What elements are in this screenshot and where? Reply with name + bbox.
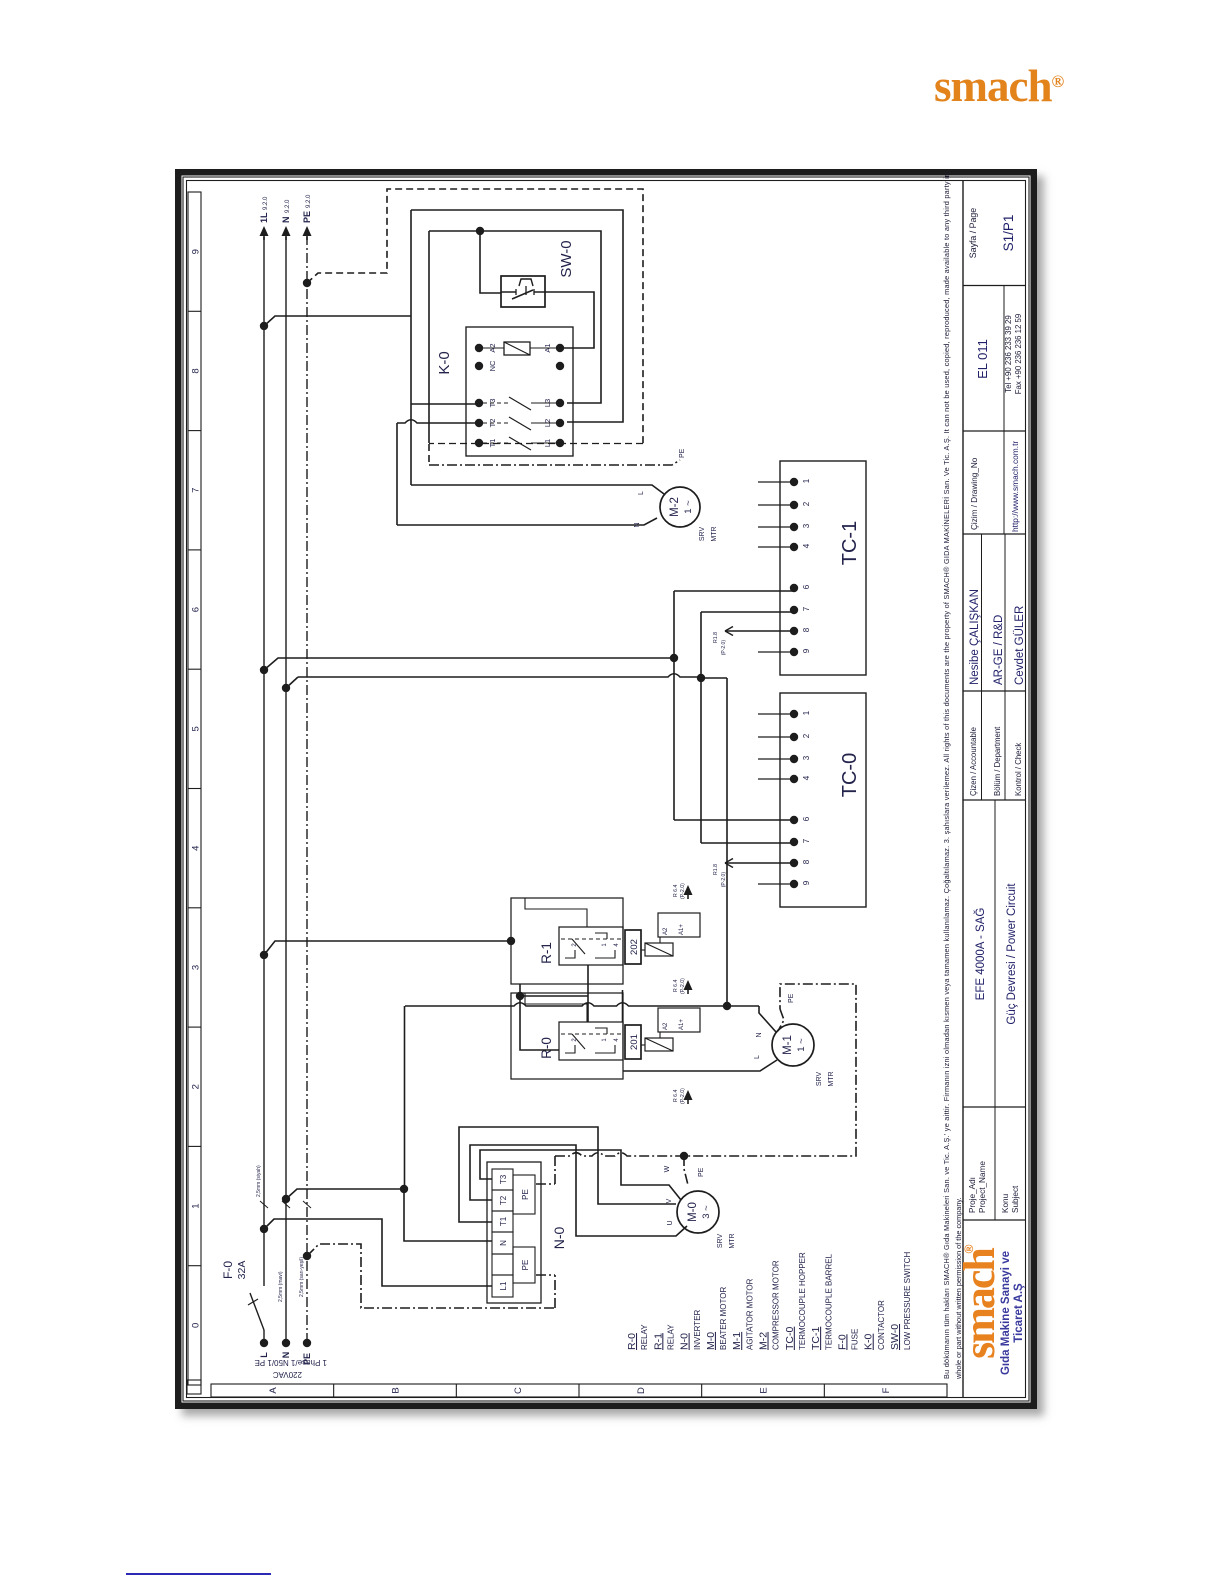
svg-text:4: 4 <box>614 943 620 947</box>
svg-text:T2: T2 <box>499 1195 508 1205</box>
svg-text:M-2: M-2 <box>758 1332 770 1350</box>
svg-text:TERMOCOUPLE HOPPER: TERMOCOUPLE HOPPER <box>798 1252 807 1350</box>
svg-text:N: N <box>499 1240 508 1246</box>
svg-text:FUSE: FUSE <box>851 1329 860 1350</box>
svg-text:F-0: F-0 <box>836 1334 848 1350</box>
svg-text:PE: PE <box>698 1167 705 1177</box>
svg-text:7: 7 <box>802 838 811 843</box>
svg-text:8: 8 <box>191 368 202 373</box>
svg-text:A2: A2 <box>663 1022 669 1030</box>
svg-text:TERMOCOUPLE BARREL: TERMOCOUPLE BARREL <box>824 1253 833 1350</box>
svg-text:5: 5 <box>191 726 202 731</box>
svg-text:TC-0: TC-0 <box>839 753 861 797</box>
svg-text:http://www.smach.com.tr: http://www.smach.com.tr <box>1010 441 1020 532</box>
svg-text:SW-0: SW-0 <box>558 240 575 277</box>
svg-text:1 Phase/1 N50/1 PE: 1 Phase/1 N50/1 PE <box>255 1358 328 1367</box>
svg-text:8: 8 <box>802 627 811 632</box>
svg-text:6: 6 <box>802 584 811 589</box>
svg-text:A: A <box>268 1387 279 1394</box>
svg-text:N: N <box>634 522 641 527</box>
svg-text:BEATER MOTOR: BEATER MOTOR <box>719 1287 728 1350</box>
svg-text:Project_Name: Project_Name <box>978 1161 987 1213</box>
svg-text:L: L <box>259 1352 269 1358</box>
svg-text:D: D <box>636 1387 647 1394</box>
svg-text:R 6.4: R 6.4 <box>673 884 679 897</box>
svg-text:7: 7 <box>802 606 811 611</box>
svg-text:2: 2 <box>191 1084 202 1089</box>
svg-text:(P-2.0): (P-2.0) <box>680 883 686 899</box>
svg-text:4: 4 <box>802 775 811 780</box>
svg-text:Cevdet GÜLER: Cevdet GÜLER <box>1014 606 1026 685</box>
svg-text:SW-0: SW-0 <box>889 1324 901 1350</box>
svg-text:K-0: K-0 <box>863 1334 875 1351</box>
svg-text:R 6.4: R 6.4 <box>673 1089 679 1102</box>
svg-text:S1/P1: S1/P1 <box>1001 215 1016 252</box>
svg-text:MTR: MTR <box>828 1071 835 1086</box>
svg-text:(P-2.0): (P-2.0) <box>680 978 686 994</box>
svg-text:3: 3 <box>191 965 202 970</box>
svg-text:N-0: N-0 <box>551 1227 567 1250</box>
svg-text:COMPRESSOR MOTOR: COMPRESSOR MOTOR <box>772 1260 781 1350</box>
svg-text:9: 9 <box>191 249 202 254</box>
svg-text:N-0: N-0 <box>679 1333 691 1350</box>
svg-text:Kontrol / Check: Kontrol / Check <box>1014 743 1023 796</box>
svg-text:NC: NC <box>488 360 497 371</box>
svg-text:3 ~: 3 ~ <box>701 1205 712 1219</box>
svg-text:Konu: Konu <box>1001 1193 1010 1213</box>
svg-text:R-0: R-0 <box>626 1333 638 1350</box>
svg-text:Çizim / Drawing_No: Çizim / Drawing_No <box>970 457 979 530</box>
svg-text:9: 9 <box>802 648 811 653</box>
svg-text:SRV: SRV <box>699 527 706 542</box>
svg-text:PE: PE <box>521 1189 530 1200</box>
svg-text:F: F <box>881 1387 892 1393</box>
svg-text:Subject: Subject <box>1011 1185 1020 1213</box>
svg-text:INVERTER: INVERTER <box>693 1309 702 1350</box>
svg-text:MTR: MTR <box>711 526 718 541</box>
svg-text:1 ~: 1 ~ <box>796 1038 807 1052</box>
svg-text:T3: T3 <box>499 1174 508 1184</box>
svg-text:Proje_Adı: Proje_Adı <box>968 1177 977 1213</box>
svg-text:2,5mm (mavi): 2,5mm (mavi) <box>278 1271 284 1302</box>
svg-text:(P-2.0): (P-2.0) <box>680 1088 686 1104</box>
svg-text:M-1: M-1 <box>782 1035 794 1055</box>
svg-text:TC-0: TC-0 <box>784 1327 796 1350</box>
svg-text:(P-2.0): (P-2.0) <box>721 640 727 656</box>
svg-text:K-0: K-0 <box>436 351 453 374</box>
svg-text:L: L <box>754 1055 761 1059</box>
svg-text:4: 4 <box>802 543 811 548</box>
svg-text:2,5mm (siyah): 2,5mm (siyah) <box>256 1165 262 1197</box>
svg-text:AGITATOR MOTOR: AGITATOR MOTOR <box>745 1278 754 1350</box>
svg-text:MTR: MTR <box>729 1233 736 1248</box>
svg-text:B: B <box>391 1387 402 1393</box>
svg-text:1: 1 <box>802 710 811 715</box>
svg-text:M-1: M-1 <box>731 1332 743 1350</box>
svg-text:Sayfa / Page: Sayfa / Page <box>968 208 978 258</box>
svg-text:4: 4 <box>191 846 202 851</box>
svg-text:N: N <box>281 217 291 224</box>
svg-text:7: 7 <box>191 488 202 493</box>
svg-text:®: ® <box>962 1244 976 1253</box>
svg-text:M-0: M-0 <box>705 1332 717 1350</box>
svg-text:LOW PRESSURE SWITCH: LOW PRESSURE SWITCH <box>903 1252 912 1350</box>
svg-text:Çizen / Accountable: Çizen / Accountable <box>969 727 978 796</box>
svg-text:F-0: F-0 <box>221 1261 235 1279</box>
svg-text:202: 202 <box>629 939 640 955</box>
svg-text:1: 1 <box>802 478 811 483</box>
svg-text:U: U <box>667 1220 674 1225</box>
svg-text:2,5mm (sarı-yeşil): 2,5mm (sarı-yeşil) <box>299 1257 305 1297</box>
svg-text:R1.8: R1.8 <box>713 864 719 875</box>
svg-text:V: V <box>666 1198 673 1203</box>
svg-text:0: 0 <box>191 1323 202 1328</box>
svg-text:3: 3 <box>802 523 811 528</box>
svg-text:220VAC: 220VAC <box>273 1370 302 1379</box>
svg-text:1: 1 <box>191 1203 202 1208</box>
svg-text:N: N <box>281 1352 291 1359</box>
svg-text:(P-2.0): (P-2.0) <box>721 872 727 888</box>
svg-text:Gıda Makine Sanayi ve: Gıda Makine Sanayi ve <box>1000 1251 1012 1375</box>
svg-text:6: 6 <box>191 607 202 612</box>
svg-text:32A: 32A <box>236 1261 248 1280</box>
svg-text:R1.8: R1.8 <box>713 632 719 643</box>
svg-text:T1: T1 <box>499 1216 508 1226</box>
svg-text:RELAY: RELAY <box>640 1324 649 1350</box>
svg-text:A2: A2 <box>663 927 669 935</box>
svg-text:L: L <box>638 491 645 495</box>
svg-text:EL 011: EL 011 <box>975 339 990 379</box>
svg-text:2: 2 <box>802 733 811 738</box>
svg-text:A1+: A1+ <box>679 1019 685 1030</box>
svg-text:E: E <box>759 1387 770 1393</box>
svg-text:9.2.0: 9.2.0 <box>263 196 269 210</box>
svg-text:Bu dökümanın tüm hakları SMACH: Bu dökümanın tüm hakları SMACH® Gıda Mak… <box>942 173 951 1379</box>
svg-text:R 6.4: R 6.4 <box>673 979 679 992</box>
svg-text:TC-1: TC-1 <box>839 521 861 565</box>
svg-text:1: 1 <box>602 943 608 947</box>
svg-text:M-0: M-0 <box>687 1202 699 1222</box>
svg-text:4: 4 <box>614 1038 620 1042</box>
svg-text:Fax +90 236 236 12 59: Fax +90 236 236 12 59 <box>1014 314 1023 394</box>
svg-text:W: W <box>664 1165 671 1172</box>
svg-text:1 ~: 1 ~ <box>683 500 694 514</box>
svg-text:M-2: M-2 <box>669 497 681 517</box>
svg-text:C: C <box>513 1387 524 1394</box>
svg-text:8: 8 <box>802 859 811 864</box>
svg-text:Güç Devresi / Power Circuit: Güç Devresi / Power Circuit <box>1006 883 1018 1025</box>
svg-text:whole or part without written: whole or part without written permission… <box>954 1197 963 1380</box>
svg-text:SRV: SRV <box>816 1072 823 1087</box>
svg-text:R-0: R-0 <box>539 1037 554 1059</box>
svg-text:Ticaret A.Ş: Ticaret A.Ş <box>1013 1283 1025 1343</box>
svg-text:Bölüm / Department: Bölüm / Department <box>993 726 1002 796</box>
svg-text:AR-GE / R&D: AR-GE / R&D <box>993 615 1005 685</box>
svg-text:PE: PE <box>679 448 686 458</box>
svg-text:1L: 1L <box>259 212 269 223</box>
svg-text:3: 3 <box>802 755 811 760</box>
svg-text:9.2.0: 9.2.0 <box>306 194 312 208</box>
svg-text:SRV: SRV <box>717 1234 724 1249</box>
svg-text:A1+: A1+ <box>679 924 685 935</box>
svg-text:PE: PE <box>788 993 795 1003</box>
svg-text:9: 9 <box>802 880 811 885</box>
svg-text:RELAY: RELAY <box>667 1324 676 1350</box>
svg-text:N: N <box>756 1032 763 1037</box>
svg-text:2: 2 <box>802 501 811 506</box>
svg-text:PE: PE <box>302 211 312 223</box>
svg-text:PE: PE <box>521 1260 530 1271</box>
svg-text:201: 201 <box>629 1034 640 1050</box>
svg-text:L1: L1 <box>499 1281 508 1290</box>
svg-text:EFE 4000A - SAĞ: EFE 4000A - SAĞ <box>974 908 987 1001</box>
svg-text:9.2.0: 9.2.0 <box>285 199 291 213</box>
svg-text:6: 6 <box>802 816 811 821</box>
svg-text:1: 1 <box>602 1038 608 1042</box>
svg-text:Tel +90 236 233 39 29: Tel +90 236 233 39 29 <box>1004 315 1013 392</box>
svg-text:Nesibe ÇALIŞKAN: Nesibe ÇALIŞKAN <box>969 589 981 685</box>
svg-text:CONTACTOR: CONTACTOR <box>877 1300 886 1350</box>
svg-text:R-1: R-1 <box>539 942 554 964</box>
svg-text:R-1: R-1 <box>652 1333 664 1350</box>
svg-text:TC-1: TC-1 <box>810 1327 822 1350</box>
